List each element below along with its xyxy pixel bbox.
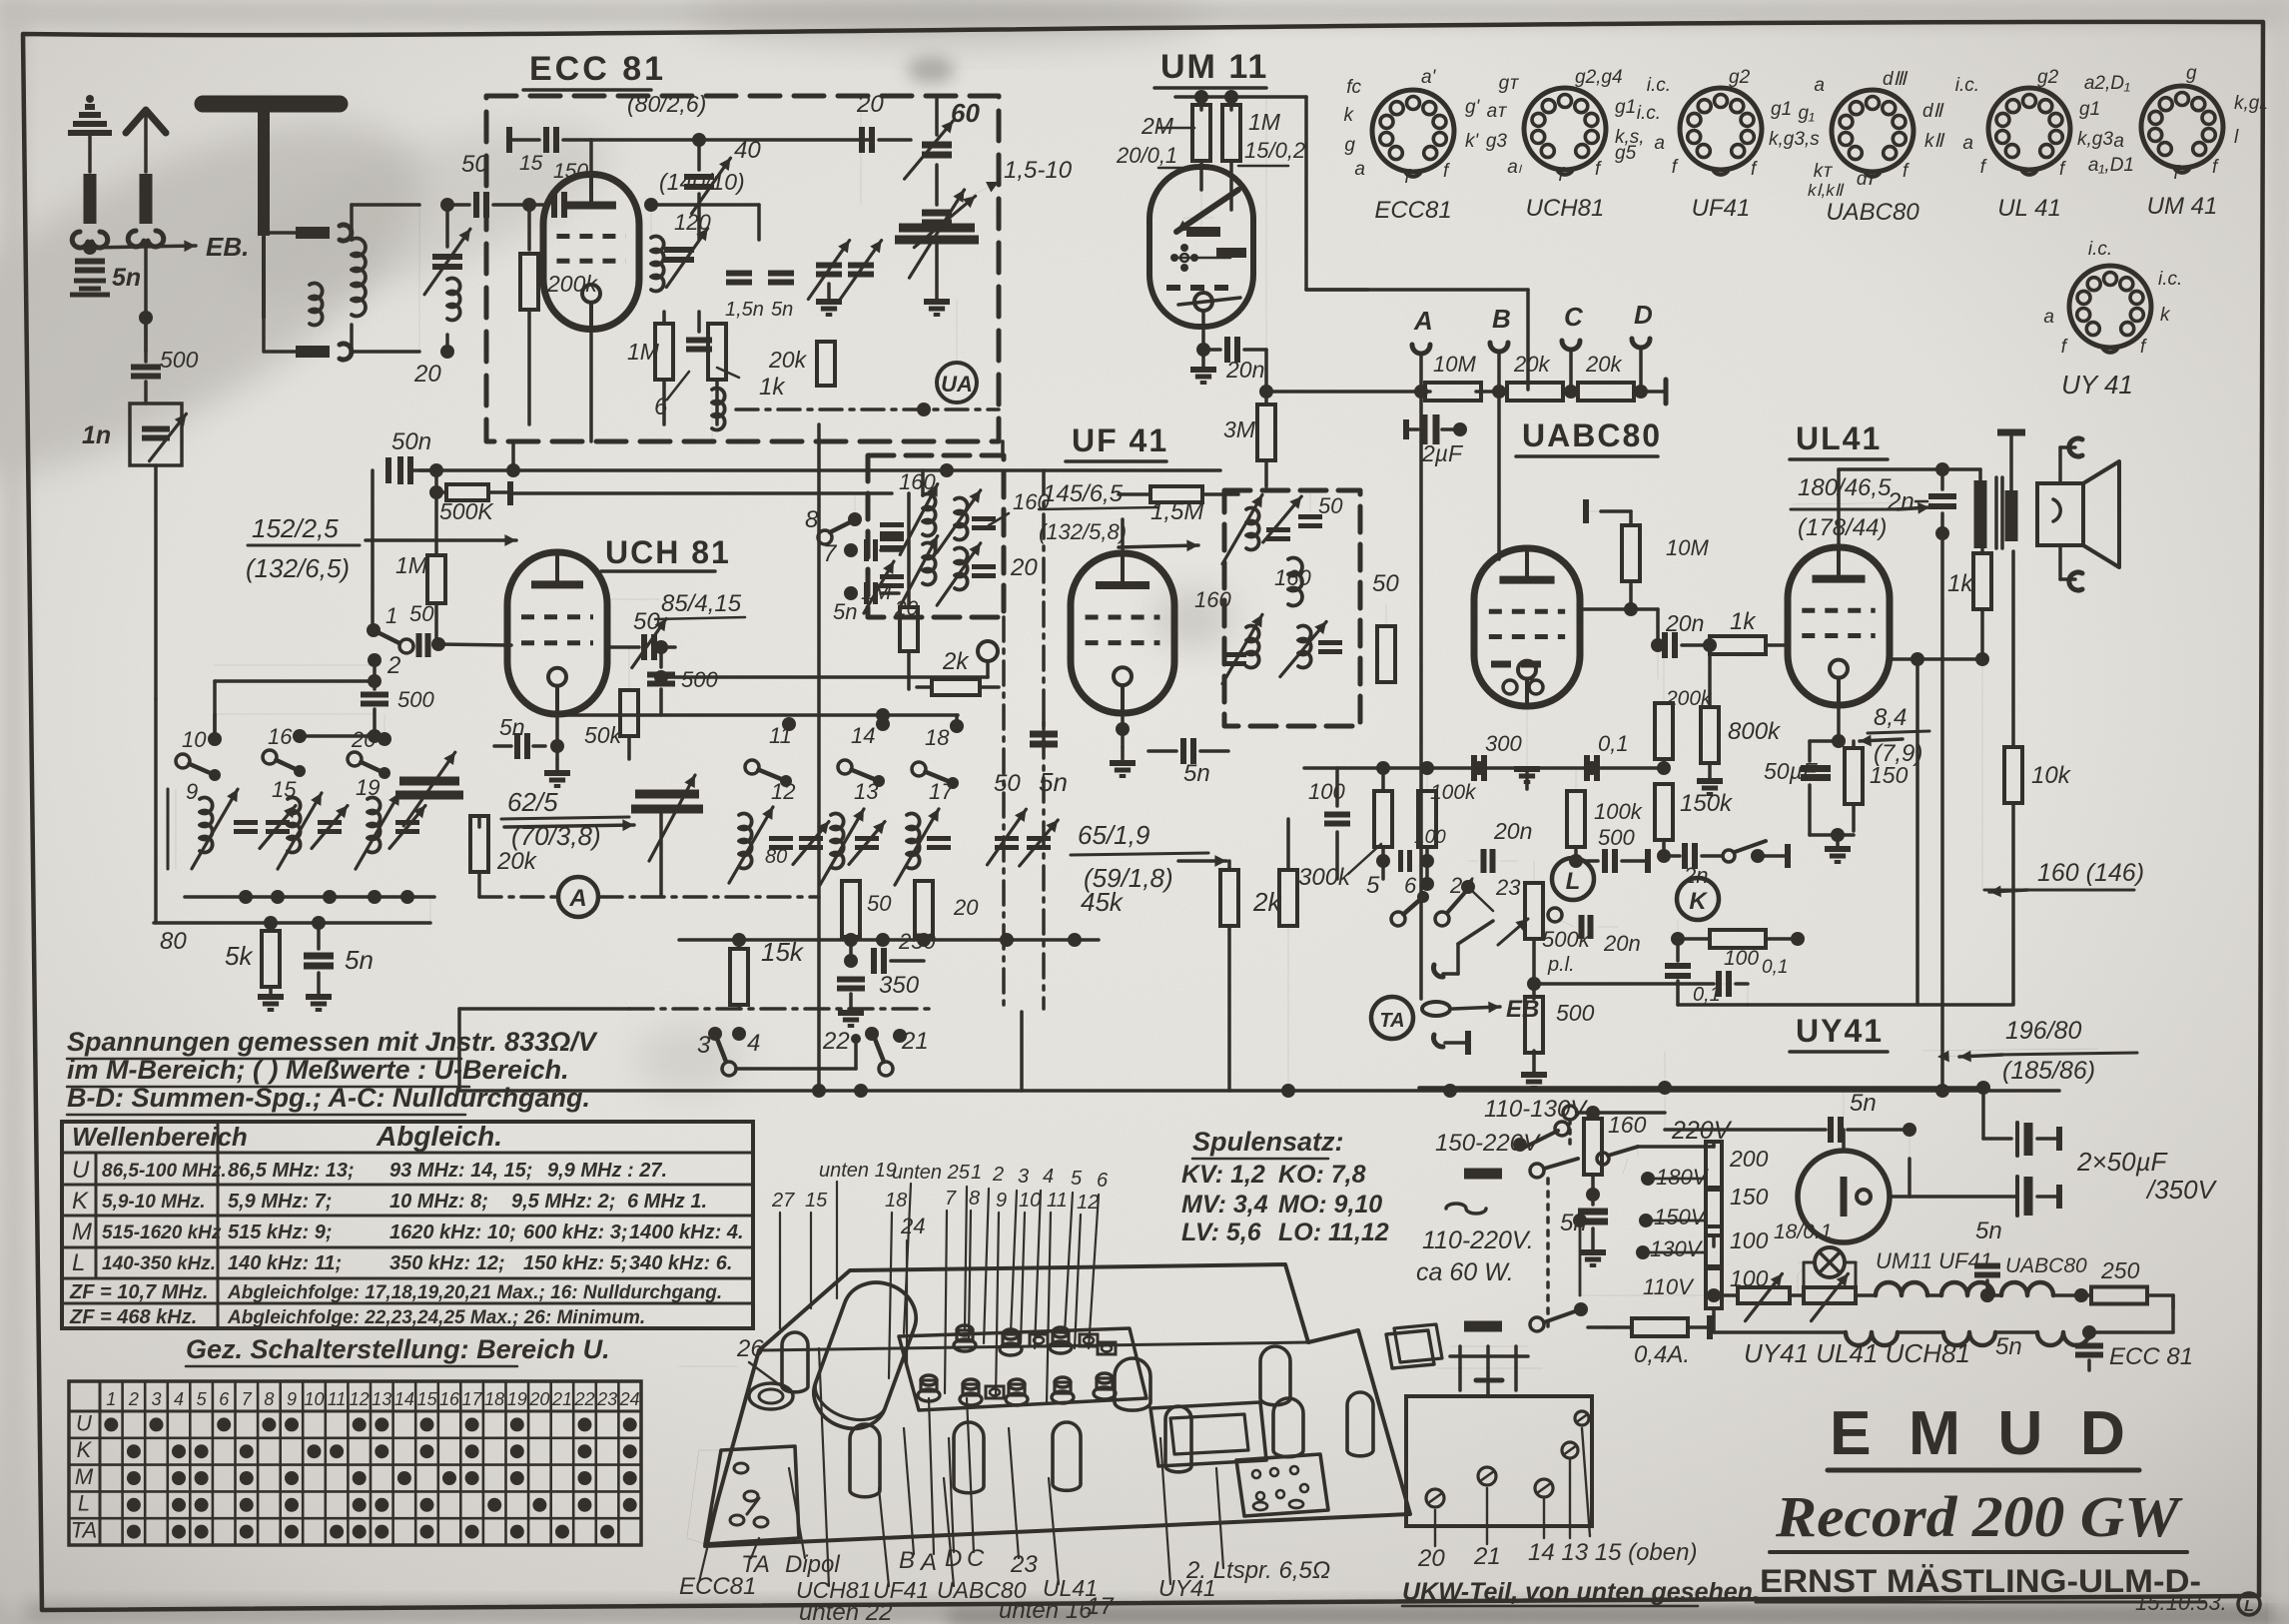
svg-text:40: 40 — [734, 137, 761, 164]
svg-text:k,gʟ: k,gʟ — [2234, 93, 2268, 114]
svg-text:9: 9 — [996, 1190, 1007, 1212]
svg-text:5,9 MHz: 7;: 5,9 MHz: 7; — [228, 1191, 332, 1213]
svg-text:unten 16: unten 16 — [999, 1597, 1093, 1624]
trimmer pair right of tube — [816, 263, 842, 269]
svg-text:(178/44): (178/44) — [1798, 514, 1887, 541]
svg-text:45k: 45k — [1081, 887, 1125, 917]
wire junction to ECC81 — [418, 205, 420, 352]
svg-text:i.c.: i.c. — [2088, 239, 2112, 260]
bus left vertical — [457, 1009, 461, 1091]
svg-text:1,5M: 1,5M — [1150, 498, 1203, 525]
svg-text:1: 1 — [971, 1162, 982, 1184]
capacitor 50 series to ECC81 — [447, 203, 469, 207]
capacitor 500 in antenna lead — [144, 352, 148, 362]
resistor 20k right — [817, 342, 835, 386]
svg-text:150 kHz: 5;: 150 kHz: 5; — [523, 1252, 628, 1274]
TA input hooks and EB arrow — [1433, 965, 1443, 977]
resistor 500 TA — [1532, 984, 1536, 999]
UCH81 anode right wires — [607, 598, 659, 600]
label 110-220V ca 60W — [1446, 1204, 1486, 1214]
svg-text:UL 41: UL 41 — [1997, 195, 2061, 222]
switch arm to 220V — [1597, 1153, 1609, 1165]
svg-text:dⅢ: dⅢ — [1883, 69, 1908, 90]
svg-text:g: g — [2186, 63, 2197, 84]
svg-text:4: 4 — [747, 1030, 760, 1057]
svg-text:20k: 20k — [768, 347, 808, 373]
variable cap 1n box — [130, 404, 182, 465]
wire left long vertical x373 — [371, 470, 375, 630]
svg-text:Gez. Schalterstellung: Bereich: Gez. Schalterstellung: Bereich U. — [186, 1334, 610, 1364]
UL41 cathode network 50uF 150 — [1837, 705, 1841, 741]
left connector panel — [705, 1446, 799, 1544]
svg-text:gᴛ: gᴛ — [1499, 73, 1520, 94]
svg-text:UF41: UF41 — [1692, 195, 1751, 222]
dashed line mains switch — [1546, 1179, 1550, 1326]
svg-text:14: 14 — [851, 723, 875, 748]
svg-text:0,1: 0,1 — [1762, 957, 1788, 978]
resistor 200k grid leak — [527, 205, 531, 250]
coil group 11/12 — [739, 814, 752, 869]
resistor 20k between C and D — [1578, 383, 1634, 401]
svg-text:18: 18 — [484, 1389, 504, 1409]
svg-text:K: K — [72, 1188, 89, 1215]
socket diagram UF41 — [1680, 88, 1762, 170]
small box top right of chassis — [1386, 1330, 1434, 1368]
svg-text:LO: 11,12: LO: 11,12 — [1278, 1218, 1389, 1246]
svg-text:10M: 10M — [1666, 535, 1709, 560]
svg-text:5k: 5k — [225, 941, 254, 971]
svg-text:i.c.: i.c. — [2158, 269, 2182, 290]
svg-text:UY41: UY41 — [1158, 1575, 1216, 1601]
svg-text:250: 250 — [2100, 1257, 2140, 1283]
svg-text:i.c.: i.c. — [1637, 103, 1661, 124]
svg-text:ZF = 10,7 MHz.: ZF = 10,7 MHz. — [69, 1281, 208, 1303]
svg-text:a: a — [2043, 307, 2054, 328]
svg-text:2n: 2n — [1683, 863, 1708, 888]
svg-text:10: 10 — [304, 1389, 324, 1409]
svg-text:8: 8 — [805, 506, 819, 533]
svg-text:11: 11 — [1047, 1190, 1068, 1212]
chassis tubes bullets — [782, 1332, 808, 1392]
svg-text:12: 12 — [771, 779, 795, 804]
stain on UF41 tube — [1153, 591, 1233, 647]
svg-text:15k: 15k — [761, 937, 805, 967]
resistor 160 tap — [1584, 1119, 1602, 1175]
svg-text:2: 2 — [128, 1389, 139, 1409]
svg-text:1,5-10: 1,5-10 — [1004, 157, 1073, 184]
svg-text:12: 12 — [1077, 1192, 1099, 1214]
svg-text:150: 150 — [1870, 762, 1908, 788]
wires oscillator section — [651, 203, 759, 207]
cap 100 between — [1398, 850, 1403, 872]
UM11 top rail — [1175, 95, 1306, 99]
resistor 10M between A and B — [1421, 390, 1430, 394]
volume pot 500k — [1525, 883, 1543, 939]
svg-text:UM 11: UM 11 — [1160, 48, 1268, 86]
heater chain bottom UY41 UL41 UCH81 — [1846, 1332, 1898, 1345]
wire dashdot to bus — [1020, 1012, 1024, 1091]
svg-text:160: 160 — [1608, 1112, 1647, 1138]
svg-text:17: 17 — [462, 1389, 483, 1409]
circled L — [1552, 858, 1594, 900]
wire 1n down long left rail — [154, 465, 158, 699]
svg-text:K: K — [1689, 888, 1708, 915]
svg-text:Dipol: Dipol — [785, 1551, 840, 1578]
svg-text:1620 kHz: 10;: 1620 kHz: 10; — [389, 1221, 516, 1243]
svg-text:6: 6 — [1404, 873, 1417, 898]
heater dropper variable resistors — [1738, 1287, 1790, 1303]
hook below antenna — [128, 231, 163, 247]
big variable cap main tuning — [899, 224, 975, 233]
svg-text:8,4: 8,4 — [1874, 704, 1907, 731]
svg-text:800k: 800k — [1728, 718, 1782, 745]
cap beside 1M — [686, 338, 712, 344]
cap 20n pot — [1579, 915, 1585, 939]
wire A down — [1419, 392, 1423, 999]
svg-text:160: 160 — [1194, 587, 1231, 612]
svg-text:18: 18 — [885, 1190, 907, 1212]
svg-text:a2,D₁: a2,D₁ — [2084, 73, 2130, 94]
svg-text:8: 8 — [264, 1389, 274, 1409]
circled L mark — [2238, 1593, 2260, 1615]
speaker terminals — [2058, 447, 2062, 483]
svg-text:20n: 20n — [1493, 818, 1532, 844]
hook below earth — [72, 232, 107, 248]
wire left column down — [144, 318, 148, 352]
svg-text:Abgleich.: Abgleich. — [376, 1121, 502, 1152]
long vertical from OT secondary — [1940, 533, 1944, 1091]
vertical antenna symbol — [126, 110, 166, 133]
coupling coil primary — [352, 239, 366, 317]
UF41 cathode caps — [1121, 713, 1125, 747]
socket diagram UCH81 — [1524, 88, 1606, 170]
svg-text:LV: 5,6: LV: 5,6 — [1181, 1218, 1262, 1246]
svg-text:196/80: 196/80 — [2005, 1017, 2082, 1045]
svg-text:100k: 100k — [1594, 799, 1643, 824]
resistor 10M vert — [1622, 525, 1640, 581]
UF41 tube U3 — [1071, 553, 1174, 713]
svg-text:7: 7 — [823, 540, 838, 567]
svg-text:0,4A.: 0,4A. — [1634, 1341, 1690, 1368]
scan shading bottom strip — [0, 1602, 2289, 1624]
svg-text:300k: 300k — [1298, 864, 1352, 891]
svg-text:500K: 500K — [439, 498, 494, 524]
capacitor 0,1 — [1584, 755, 1590, 781]
svg-text:(140/10): (140/10) — [659, 169, 745, 195]
trimmer cap 20 with arrow — [432, 254, 462, 260]
wire antenna down to coupling — [144, 243, 148, 352]
ground antenna terminal (earth stack) — [68, 107, 112, 133]
svg-text:130V: 130V — [1650, 1236, 1704, 1261]
voltage divider chain — [1713, 1147, 1715, 1150]
wire B down to UABC80 area — [1497, 392, 1501, 559]
svg-text:180V: 180V — [1656, 1165, 1710, 1190]
svg-text:B: B — [1492, 304, 1511, 334]
svg-text:160 (146): 160 (146) — [2037, 859, 2144, 887]
svg-text:UM 41: UM 41 — [2147, 193, 2218, 220]
dash-dot link A — [477, 872, 481, 897]
round can left — [749, 1383, 793, 1409]
wire node2 branch left — [215, 664, 375, 666]
svg-text:110V: 110V — [1643, 1274, 1695, 1299]
wire UCH81 output to terminal — [663, 675, 988, 679]
top right caps 20 — [859, 127, 865, 153]
svg-text:0,1: 0,1 — [1598, 731, 1629, 756]
output transformer — [1978, 469, 1982, 480]
wellenbereich table frame — [62, 1122, 753, 1328]
svg-text:A: A — [1413, 306, 1433, 336]
svg-text:86,5 MHz: 13;: 86,5 MHz: 13; — [228, 1160, 355, 1182]
IF transformer dashed box 1 (10,7MHz) — [1224, 490, 1360, 726]
svg-text:KV: 1,2: KV: 1,2 — [1181, 1161, 1265, 1189]
svg-text:15/0,2: 15/0,2 — [1244, 138, 1305, 163]
resistor 20 mid — [915, 881, 933, 937]
resistor 1k speaker — [1973, 553, 1991, 609]
svg-text:5n: 5n — [833, 599, 857, 624]
resistor 100k det — [1418, 791, 1436, 847]
paper grain — [0, 0, 1, 1]
svg-text:5n: 5n — [1995, 1333, 2022, 1360]
svg-text:150: 150 — [1730, 1184, 1769, 1210]
coil secondary small — [310, 284, 323, 326]
svg-text:K: K — [77, 1437, 93, 1462]
svg-text:/350V: /350V — [2145, 1175, 2218, 1205]
svg-text:150k: 150k — [1680, 790, 1734, 817]
svg-text:16: 16 — [268, 724, 293, 749]
svg-text:15.10.53.: 15.10.53. — [2135, 1590, 2227, 1615]
svg-text:Spulensatz:: Spulensatz: — [1192, 1127, 1344, 1157]
svg-text:50: 50 — [994, 770, 1021, 797]
svg-text:17: 17 — [929, 779, 954, 804]
svg-text:1n: 1n — [82, 421, 111, 449]
svg-text:6: 6 — [654, 394, 668, 420]
svg-text:18/0.1: 18/0.1 — [1774, 1220, 1832, 1243]
resistor 20k agc — [470, 816, 488, 872]
svg-text:UY 41: UY 41 — [2061, 370, 2133, 400]
svg-text:UY41 UL41 UCH81: UY41 UL41 UCH81 — [1744, 1338, 1970, 1368]
svg-text:21: 21 — [551, 1389, 572, 1409]
resistor 1M — [1229, 97, 1233, 110]
svg-text:14: 14 — [394, 1389, 414, 1409]
svg-text:k,g3: k,g3 — [2077, 129, 2113, 150]
svg-text:50: 50 — [867, 891, 892, 916]
svg-text:g2,g4: g2,g4 — [1575, 67, 1623, 88]
svg-text:g5: g5 — [1615, 143, 1637, 164]
resistor 1,5M — [1119, 492, 1148, 496]
svg-text:10: 10 — [1019, 1190, 1041, 1212]
svg-text:20: 20 — [351, 727, 377, 752]
dipole feed bend — [258, 232, 264, 310]
svg-text:ECC 81: ECC 81 — [2109, 1343, 2193, 1370]
trimmer 1,5-10 — [922, 210, 952, 217]
svg-text:93 MHz: 14, 15;: 93 MHz: 14, 15; — [389, 1160, 532, 1182]
svg-text:50µF: 50µF — [1764, 758, 1819, 784]
svg-text:i.c.: i.c. — [1955, 75, 1979, 96]
svg-text:UABC80: UABC80 — [1826, 199, 1919, 226]
svg-text:1: 1 — [106, 1389, 116, 1409]
svg-text:g1: g1 — [2079, 99, 2100, 120]
svg-text:Abgleichfolge: 17,18,19,20,21: Abgleichfolge: 17,18,19,20,21 Max.; 16: … — [227, 1282, 722, 1303]
stain bottom middle — [634, 1024, 744, 1094]
dash-dot chassis line inside ECC81 — [736, 407, 999, 411]
dash-dot continuation y455 to UF41 — [1001, 441, 1005, 455]
svg-text:MO: 9,10: MO: 9,10 — [1278, 1191, 1382, 1218]
UM11 cathode to ground via 20n — [1201, 311, 1205, 350]
dash-dot chassis line mid — [629, 1007, 935, 1011]
left bank bus wires — [185, 895, 434, 899]
switch position grid table — [69, 1381, 641, 1545]
svg-text:500: 500 — [681, 667, 718, 692]
svg-text:Wellenbereich: Wellenbereich — [72, 1122, 248, 1152]
scan shading top edge — [0, 0, 2289, 26]
svg-text:i.c.: i.c. — [1647, 75, 1671, 96]
svg-text:p.l.: p.l. — [1547, 954, 1575, 976]
svg-text:a': a' — [1421, 67, 1437, 88]
wire UF41 anode to IF1 — [1121, 519, 1125, 555]
svg-text:10M: 10M — [1433, 352, 1476, 377]
chassis leader lines — [836, 1182, 838, 1298]
svg-text:12: 12 — [350, 1389, 370, 1409]
svg-text:3M: 3M — [1223, 416, 1256, 442]
UL41 anode wire to OT — [1837, 469, 1841, 547]
circled A terminal — [558, 877, 598, 917]
UL41 screen wire — [1890, 657, 1982, 661]
svg-text:UA: UA — [941, 372, 973, 397]
mains transformer box — [1150, 1402, 1266, 1466]
svg-text:1k: 1k — [1730, 608, 1757, 635]
node EB line with arrow — [83, 241, 97, 255]
svg-text:22: 22 — [822, 1028, 850, 1055]
svg-text:150V: 150V — [1654, 1205, 1708, 1229]
svg-text:5n: 5n — [112, 264, 141, 292]
capacitor 5n mains — [1578, 1209, 1608, 1216]
socket diagram UL41 — [1988, 88, 2070, 170]
svg-text:22: 22 — [573, 1389, 594, 1409]
svg-text:145/6,5: 145/6,5 — [1043, 480, 1124, 507]
svg-text:16: 16 — [439, 1389, 460, 1409]
mid bus y941 — [679, 938, 1099, 942]
UL41 tube U5 — [1788, 547, 1890, 705]
rectifier cathode wire right — [1890, 1195, 1909, 1199]
resistor 15k — [737, 940, 741, 949]
svg-text:180/46,5: 180/46,5 — [1798, 474, 1892, 501]
svg-text:KO: 7,8: KO: 7,8 — [1278, 1161, 1366, 1189]
svg-text:65/1,9: 65/1,9 — [1078, 820, 1149, 850]
main top bus power — [1419, 1086, 1983, 1090]
wire long rail y471 — [419, 468, 1220, 472]
svg-text:g1: g1 — [1771, 99, 1792, 120]
T dipole antenna — [203, 96, 340, 113]
resistor 1M agc — [427, 555, 445, 603]
lamp shunt wires — [1803, 1262, 1806, 1295]
ECC81 box bottom exit wires — [589, 330, 593, 441]
ECC81 dashed box — [486, 96, 999, 441]
svg-text:a: a — [2113, 131, 2124, 152]
cap 250 and 350 — [849, 940, 853, 961]
svg-text:UABC80: UABC80 — [1522, 417, 1662, 453]
svg-text:(132/5,8): (132/5,8) — [1039, 519, 1127, 544]
node at grid line — [522, 198, 536, 212]
svg-text:L: L — [2244, 1598, 2254, 1615]
electrolytic cans right — [1260, 1346, 1290, 1405]
svg-text:150: 150 — [553, 160, 588, 183]
svg-text:8: 8 — [969, 1188, 980, 1210]
resistor 50k — [620, 690, 638, 736]
svg-text:kⅡ: kⅡ — [1924, 131, 1945, 152]
svg-text:UKW-Teil, von unten gesehen.: UKW-Teil, von unten gesehen. — [1402, 1578, 1760, 1606]
svg-text:1M: 1M — [395, 552, 428, 578]
svg-text:C: C — [1564, 302, 1584, 332]
svg-text:20k: 20k — [1585, 352, 1622, 377]
terminal circle under IF box A — [978, 641, 998, 661]
svg-text:2M: 2M — [1141, 113, 1174, 139]
svg-text:120: 120 — [674, 210, 711, 235]
tuning capacitor drum — [805, 1272, 926, 1438]
UA terminal circle — [937, 363, 977, 403]
resistor 800k — [1701, 707, 1719, 763]
svg-text:ca 60 W.: ca 60 W. — [1416, 1258, 1514, 1286]
svg-text:k: k — [1344, 105, 1355, 126]
svg-text:515-1620 kHz: 515-1620 kHz — [102, 1222, 222, 1243]
svg-text:9: 9 — [186, 779, 198, 804]
cap 500 below — [659, 647, 663, 667]
chassis label leader lines — [751, 1538, 759, 1558]
svg-text:1k: 1k — [759, 374, 786, 401]
left rail from 1n — [154, 699, 158, 923]
svg-text:5: 5 — [1071, 1168, 1083, 1190]
svg-text:3: 3 — [1018, 1166, 1029, 1188]
left tuning gang — [860, 96, 862, 205]
band trimmer 60 — [922, 142, 952, 149]
svg-text:21: 21 — [1473, 1543, 1501, 1570]
svg-text:D: D — [1634, 300, 1653, 330]
svg-text:500: 500 — [1598, 825, 1635, 850]
antenna switch part — [687, 1450, 721, 1544]
svg-text:2µF: 2µF — [1421, 440, 1464, 466]
svg-text:340 kHz: 6.: 340 kHz: 6. — [629, 1252, 732, 1274]
stub after D — [1641, 390, 1666, 394]
K node resistor 100 — [1710, 930, 1766, 948]
svg-text:g2: g2 — [2037, 67, 2059, 88]
dash-dot vertical x1045 — [1042, 470, 1046, 1009]
svg-text:UABC80: UABC80 — [2005, 1254, 2087, 1277]
UCH81 cathode 5n — [555, 714, 559, 759]
resistor 2M — [1199, 97, 1203, 110]
switch link wire — [736, 1067, 856, 1071]
svg-text:2×50µF: 2×50µF — [2076, 1147, 2169, 1177]
capacitor 150 at grid — [529, 203, 547, 207]
svg-text:5n: 5n — [499, 714, 525, 740]
svg-text:EB.: EB. — [206, 232, 249, 262]
svg-text:UCH 81: UCH 81 — [605, 534, 731, 570]
svg-text:50: 50 — [409, 601, 434, 626]
svg-text:20: 20 — [528, 1389, 549, 1409]
svg-text:20/0,1: 20/0,1 — [1116, 143, 1177, 168]
capacitor 5n below UF41 — [1030, 731, 1058, 738]
svg-text:10k: 10k — [2031, 762, 2072, 789]
socket diagram UABC80 — [1832, 90, 1913, 172]
svg-text:TA: TA — [1379, 1010, 1404, 1032]
svg-text:100: 100 — [1414, 827, 1446, 848]
trimmer subplate — [899, 1328, 1146, 1410]
svg-text:ZF = 468 kHz.: ZF = 468 kHz. — [69, 1306, 197, 1328]
svg-text:unten 22: unten 22 — [799, 1599, 892, 1624]
svg-text:dⅠ: dⅠ — [1857, 169, 1876, 190]
socket diagram ECC81 — [1372, 90, 1454, 172]
svg-text:ECC 81: ECC 81 — [529, 50, 666, 88]
svg-text:500: 500 — [160, 347, 199, 373]
svg-text:(132/6,5): (132/6,5) — [246, 553, 350, 583]
